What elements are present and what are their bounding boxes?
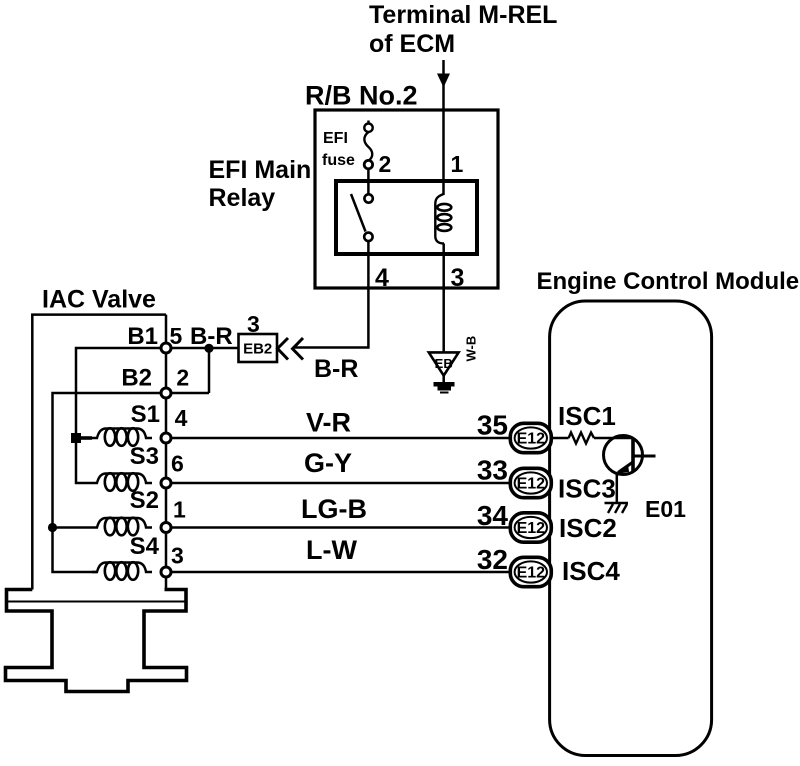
- svg-text:EFI Main: EFI Main: [209, 156, 312, 184]
- fuse EFI: top terminal: [364, 124, 372, 132]
- wire relay pin 4 to EB2 chevrons: [294, 241, 368, 348]
- relay coil: [435, 194, 444, 244]
- connector EB2: [239, 334, 278, 362]
- svg-text:S3: S3: [130, 443, 159, 470]
- connector E12 row 4: [510, 557, 551, 586]
- wire B1 left branch to S1/S3 coils: [76, 348, 166, 483]
- svg-text:Engine Control Module: Engine Control Module: [537, 268, 800, 295]
- node S4: [161, 567, 171, 577]
- label EFI Main Relay: [209, 156, 312, 212]
- connector E12 row 2: [510, 468, 551, 497]
- svg-text:Terminal M-REL: Terminal M-REL: [369, 1, 557, 29]
- arrowhead: [437, 74, 450, 88]
- svg-text:B1: B1: [127, 323, 158, 350]
- svg-text:V-R: V-R: [306, 408, 351, 438]
- svg-text:E01: E01: [645, 496, 686, 522]
- wire B1 to EB2 (B-R): [166, 347, 239, 350]
- svg-text:4: 4: [175, 405, 188, 431]
- terminal labels IAC: [121, 323, 160, 560]
- wire S1 to E12: [166, 437, 510, 440]
- wire colour labels: [301, 408, 367, 566]
- ECM pin numbers: [477, 410, 509, 576]
- svg-text:B-R: B-R: [314, 355, 358, 383]
- svg-text:2: 2: [379, 151, 392, 177]
- svg-text:5: 5: [170, 323, 183, 349]
- wire S2 to E12: [166, 526, 510, 529]
- svg-text:R/B No.2: R/B No.2: [305, 81, 418, 111]
- pin labels IAC: [170, 323, 190, 569]
- node B2: [161, 388, 171, 398]
- connector E12 row 3: [510, 513, 551, 542]
- relay box EFI Main Relay: [336, 181, 477, 254]
- wire B2 left branch to S2/S4 coils: [53, 393, 167, 572]
- stub to S1 coil: [76, 436, 92, 440]
- svg-text:B-R: B-R: [190, 323, 233, 350]
- wire S4 to E12: [166, 571, 510, 574]
- transistor collector: [633, 455, 656, 458]
- svg-text:ISC2: ISC2: [559, 513, 617, 543]
- svg-text:B2: B2: [121, 365, 152, 392]
- transistor emitter: [618, 462, 633, 473]
- fuse EFI: element squiggle: [364, 132, 372, 161]
- transistor Q (ISC driver): [604, 436, 643, 475]
- coil S1: [92, 428, 152, 446]
- relay switch moving contact: [364, 233, 372, 241]
- svg-text:Relay: Relay: [209, 184, 276, 212]
- wire IAC main stem: [165, 315, 168, 590]
- connector E12 row 1: [510, 423, 551, 452]
- svg-text:EB: EB: [435, 356, 453, 371]
- svg-text:ISC4: ISC4: [562, 556, 620, 586]
- svg-text:S4: S4: [130, 533, 160, 560]
- svg-text:S1: S1: [131, 401, 160, 428]
- wire emitter to E01 ground: [616, 473, 619, 503]
- svg-text:S2: S2: [130, 487, 159, 514]
- svg-text:W-B: W-B: [464, 336, 479, 362]
- relay switch lever: [351, 194, 366, 232]
- wire resistor to transistor base: [594, 437, 633, 440]
- svg-text:G-Y: G-Y: [304, 448, 352, 478]
- svg-text:3: 3: [247, 311, 260, 337]
- junction dot S1: [71, 433, 81, 443]
- svg-text:IAC Valve: IAC Valve: [42, 286, 156, 314]
- wire E12 to resistor: [551, 437, 569, 440]
- wire M-REL input to relay coil: [442, 60, 445, 195]
- svg-text:3: 3: [451, 264, 465, 292]
- svg-text:1: 1: [451, 151, 464, 177]
- junction dot B-R/B2: [204, 344, 213, 353]
- relay switch fixed contact: [364, 194, 372, 202]
- coil S3: [92, 473, 152, 491]
- svg-text:L-W: L-W: [306, 535, 357, 565]
- svg-text:ISC3: ISC3: [558, 474, 616, 504]
- wire relay pin 3 to ground: [442, 244, 445, 353]
- wire IAC valve top left: [32, 315, 166, 590]
- stub to S2 coil: [53, 526, 93, 529]
- node B1: [161, 343, 171, 353]
- junction dot S2: [48, 523, 57, 532]
- svg-text:2: 2: [176, 365, 189, 391]
- wire fuse to switch: [367, 169, 370, 195]
- svg-text:32: 32: [477, 544, 508, 575]
- junction box R/B No.2: [315, 110, 498, 288]
- ground E01: [605, 502, 629, 505]
- svg-text:EFI: EFI: [323, 130, 348, 147]
- svg-text:1: 1: [173, 497, 186, 523]
- coil S4: [92, 562, 152, 580]
- wire dot to B2: [208, 348, 211, 393]
- svg-text:6: 6: [171, 451, 184, 477]
- resistor (ISC1 transistor base): [569, 433, 594, 444]
- svg-text:of ECM: of ECM: [369, 30, 455, 58]
- connector chevrons <<: [278, 338, 289, 360]
- svg-text:33: 33: [477, 455, 508, 486]
- fuse EFI: top stub: [367, 121, 370, 125]
- svg-text:EB2: EB2: [243, 341, 272, 358]
- ground connector EB: [429, 352, 459, 375]
- svg-text:fuse: fuse: [322, 152, 355, 169]
- ECM body: [550, 301, 712, 756]
- node S2: [161, 523, 171, 533]
- coil S2: [92, 518, 152, 536]
- svg-text:35: 35: [477, 410, 508, 441]
- node S1: [161, 433, 171, 443]
- ground symbol: [442, 376, 445, 382]
- svg-text:ISC1: ISC1: [558, 401, 616, 431]
- node S3: [161, 478, 171, 488]
- wire S3 to E12: [166, 482, 510, 485]
- label Terminal M-REL of ECM: [369, 1, 557, 58]
- label EFI fuse: [322, 130, 355, 169]
- transistor base bar: [631, 438, 635, 472]
- svg-text:4: 4: [375, 264, 389, 292]
- svg-text:34: 34: [477, 500, 509, 531]
- valve body outline: [6, 590, 187, 692]
- wire B2: [166, 392, 209, 395]
- fuse EFI: bottom terminal: [364, 160, 372, 168]
- valve body inner line: [8, 601, 185, 603]
- svg-text:LG-B: LG-B: [301, 494, 367, 524]
- svg-text:3: 3: [171, 543, 184, 569]
- ISC labels: [558, 401, 620, 586]
